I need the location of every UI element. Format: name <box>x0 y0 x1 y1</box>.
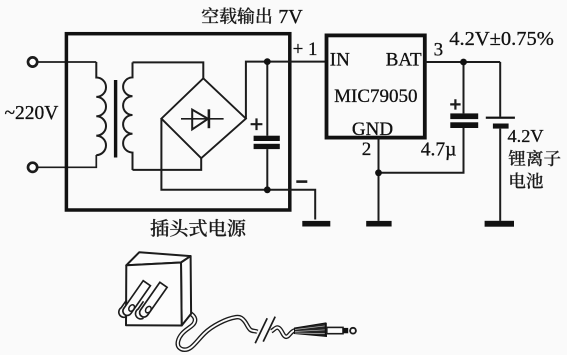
svg-text:4.2V: 4.2V <box>508 126 544 146</box>
terminal: top AC input <box>28 57 37 66</box>
svg-text:MIC79050: MIC79050 <box>334 86 417 107</box>
svg-text:4.2V±0.75%: 4.2V±0.75% <box>449 28 554 50</box>
svg-text:+ 1: + 1 <box>293 39 318 60</box>
enclosure box (plug-in power supply) <box>66 34 289 210</box>
output capacitor C2 plates <box>450 113 478 119</box>
junction node: GND net / C2 <box>375 169 382 176</box>
ground G3 (battery) <box>485 221 514 227</box>
battery B1 positive plate (long) <box>486 117 515 119</box>
bridge diode symbol: triangle <box>192 110 208 130</box>
ground G1 (negative output) <box>302 221 330 227</box>
adapter pictorial: left prong blade <box>121 281 150 318</box>
bridge diode symbol: cathode bar <box>208 109 211 128</box>
plus sign of C2 <box>450 99 460 109</box>
wire: secondary bottom to bridge AC node <box>133 158 202 170</box>
bridge diode symbol: anode line <box>181 118 224 120</box>
svg-text:~220V: ~220V <box>5 103 59 124</box>
adapter pictorial: box right face <box>181 256 191 325</box>
wire: bridge DC- drop and negative rail to box edge <box>161 119 315 220</box>
label: battery (dian chi) <box>510 172 543 188</box>
junction node: output rail / C2 <box>460 59 467 66</box>
adapter pictorial: cord core (white inner line) <box>178 314 258 350</box>
adapter pictorial: connector barrel <box>327 327 343 333</box>
label: no-load output (kong zai shu chu) <box>202 7 272 24</box>
wire: secondary top to bridge AC node <box>133 62 204 78</box>
adapter pictorial: right prong blade <box>138 282 167 319</box>
adapter pictorial: break slash marks <box>255 317 275 344</box>
transformer T1 secondary winding <box>123 62 132 170</box>
adapter pictorial: tip ball <box>350 328 356 334</box>
adapter pictorial: box front face <box>126 263 182 326</box>
svg-text:3: 3 <box>434 39 444 60</box>
transformer T1 core <box>114 80 117 158</box>
regulator U1 MIC79050 box <box>327 35 425 137</box>
label: plug-type power supply (cha tou shi dian yuan) <box>151 219 246 237</box>
filter capacitor C1 top lead <box>266 62 268 136</box>
adapter pictorial: barrel black band <box>343 328 348 333</box>
transformer T1 primary winding <box>96 62 106 155</box>
junction node: negative rail / C1 <box>264 186 271 193</box>
wire: bottom AC input lead from terminal to transformer primary <box>37 155 96 167</box>
adapter pictorial: cone rim <box>325 323 327 337</box>
junction node: positive rail / C1 <box>264 58 271 65</box>
adapter pictorial: strain-relief cone (hatched) <box>295 323 327 337</box>
adapter pictorial: box top face <box>126 252 190 265</box>
battery B1 top lead <box>499 62 501 117</box>
svg-text:GND: GND <box>352 119 393 140</box>
svg-text:2: 2 <box>362 139 372 160</box>
svg-text:IN: IN <box>330 49 350 70</box>
svg-text:4.7µ: 4.7µ <box>421 140 457 161</box>
output capacitor C2 bottom lead to GND net <box>379 128 464 173</box>
pin 2 wire: GND down to ground <box>378 138 380 221</box>
plus sign of C1 <box>251 118 263 130</box>
bridge rectifier diamond <box>161 78 246 158</box>
battery B1 bottom lead <box>499 129 501 221</box>
label: lithium-ion (li li zi) <box>509 150 561 166</box>
filter capacitor C1 bottom lead <box>266 149 268 190</box>
svg-text:BAT: BAT <box>386 49 422 70</box>
minus sign on negative output <box>296 180 307 183</box>
wire: bridge DC+ riser to positive rail <box>246 62 327 119</box>
filter capacitor C1 plates <box>254 136 280 141</box>
wire: top AC input lead from terminal to transformer primary <box>37 61 96 63</box>
adapter pictorial: left prong blade (3d edge) <box>117 299 135 319</box>
pin 3 wire: BAT output rail <box>425 61 500 63</box>
svg-text:7V: 7V <box>278 6 303 28</box>
terminal: bottom AC input <box>28 163 37 172</box>
battery B1 negative plate (short thick) <box>493 124 509 129</box>
output capacitor C2 top lead <box>463 62 465 113</box>
ground G2 (U1 GND pin) <box>366 221 391 227</box>
adapter pictorial: right prong blade (3d edge) <box>133 301 151 321</box>
adapter pictorial: cord wavy cable (outer) <box>178 314 258 350</box>
